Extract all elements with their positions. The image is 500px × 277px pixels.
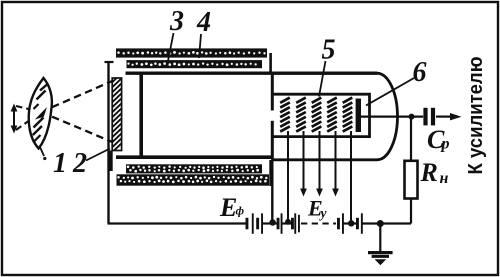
photocathode lead (left vertical wire) [105,62,114,224]
coil 3 inner winding bottom band [126,164,262,173]
label Eu [307,196,328,221]
svg-text:R: R [420,158,438,187]
label 1 [53,148,67,179]
wire Eu node [283,222,292,224]
svg-text:ф: ф [236,204,245,218]
battery Eu cell2 plus [294,213,296,234]
label 5 [322,35,336,66]
battery Eu cell4 plus [361,213,363,234]
wire Ef to node [263,222,278,224]
aperture plate lead [269,159,275,226]
battery Eu cell1 plus [281,213,283,234]
battery Eu cell3 plus [342,213,344,234]
battery Ef cell1 plus [252,213,254,234]
battery Ef cell2 plus [261,213,263,234]
label 2 leader [86,149,110,161]
dynode D2 [296,98,306,132]
label 4 [196,7,211,38]
output arrow to amplifier [436,113,462,120]
battery Ef cell1 minus [246,218,249,230]
label 1 leader [40,146,47,160]
multiplier box [274,94,370,136]
resistor Rn lead top [410,119,412,161]
label 6 [413,57,427,88]
svg-text:3: 3 [169,6,184,37]
label K usilitelyu [465,57,487,175]
svg-text:н: н [440,170,449,187]
svg-text:р: р [440,136,450,153]
resistor Rn lead bottom [410,199,412,224]
lens 1 [29,78,52,149]
svg-text:5: 5 [322,35,336,66]
photocathode contact stub [109,151,113,172]
dynode arrow A2 [300,131,307,197]
collector 6 [356,99,361,133]
dynode D4 [327,98,337,132]
label 2 [72,148,87,179]
label Ef [219,193,245,222]
resistor Rn [405,161,418,199]
svg-text:1: 1 [53,148,67,179]
dynode D5 [343,98,353,132]
dynode arrow A4 [332,131,339,197]
light ray upper-left [16,106,41,112]
bottom wire left [108,222,246,224]
dynode wire W1 [285,131,291,225]
svg-text:2: 2 [72,148,87,179]
glass bulb envelope [272,73,397,160]
object arrow [11,104,18,134]
dynode D1 [280,98,290,132]
anode box left wall [139,72,143,156]
coil 4 outer winding bottom band [117,174,270,185]
ground [368,253,393,266]
capacitor Cp [423,108,435,126]
label Rn [420,158,449,187]
svg-text:6: 6 [413,57,427,88]
photocathode 2 [112,74,121,153]
battery Eu cell1 minus [277,218,280,230]
battery Ef cell2 minus [256,218,259,230]
coil 3 inner winding top band [127,60,263,68]
light ray upper-right [41,81,114,113]
svg-text:4: 4 [196,7,211,38]
label 3 leader [168,33,174,64]
svg-text:К усилителю: К усилителю [465,57,487,175]
wire Eu to ground node [363,220,412,227]
battery Eu tap plate [298,215,300,233]
dynode arrow A3 [316,131,323,197]
label 3 [169,6,184,37]
svg-text:у: у [319,206,328,221]
ground lead [379,224,381,252]
label 6 leader [366,78,414,106]
wire to W5 node [344,222,358,224]
tube glass bottom edge [116,155,273,159]
dynode D3 [312,98,322,132]
label Cp [427,125,450,154]
battery Eu dashed link [301,222,336,224]
light ray lower-right [41,112,114,143]
battery Eu cell2 minus [291,218,294,230]
anode output wire [361,114,423,120]
label 4 leader [199,34,201,58]
battery Eu cell3 minus [337,218,340,230]
coil box right edge [269,53,272,186]
battery Eu cell4 minus [356,218,359,230]
aperture plate [271,73,274,159]
dynode wire W5 [348,131,354,227]
tube glass top edge [126,71,378,74]
label 5 leader [319,61,326,97]
light ray lower-left [16,112,41,130]
coil 4 outer winding top band [116,48,267,57]
